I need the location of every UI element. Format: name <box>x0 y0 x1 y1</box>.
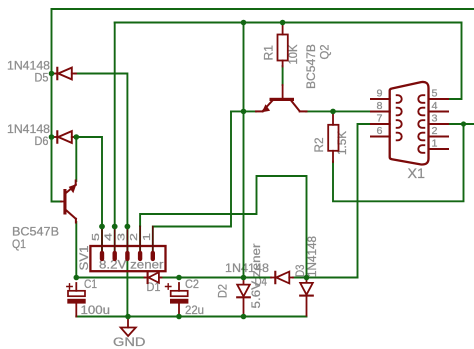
diode D3 <box>300 278 313 316</box>
wire SV1 pin4 net vertical <box>114 23 116 227</box>
X1 female contacts left <box>397 95 402 140</box>
svg-text:D6: D6 <box>35 136 49 148</box>
wire SV1 pin2 net to D3 junction <box>140 176 306 278</box>
connector X1 body <box>390 82 429 165</box>
resistor R1 <box>278 23 288 67</box>
wire D5 to SV1 pin3 <box>75 74 127 251</box>
wire SV1 pin2 lead upper <box>139 226 141 250</box>
connector SV1 box <box>90 246 165 271</box>
wire +rail D1 to D4 <box>161 277 271 279</box>
wire X1 pin8 row / Q2 collector <box>306 110 371 112</box>
wire D6 to SV1 pin5 <box>75 137 102 250</box>
svg-text:22u: 22u <box>185 305 204 317</box>
svg-text:GND: GND <box>113 335 146 349</box>
wire R2 bottom to X1 pin3 <box>333 124 464 201</box>
svg-text:3: 3 <box>432 113 438 125</box>
svg-text:4: 4 <box>103 233 115 241</box>
capacitor C2 <box>166 283 189 317</box>
X1 pin stubs right <box>429 99 449 149</box>
X1 female contacts right <box>418 95 424 153</box>
svg-text:Q2: Q2 <box>320 45 332 60</box>
wire top rail <box>52 8 474 10</box>
wire Q2 emitter net vertical <box>243 23 245 278</box>
svg-text:BC547B: BC547B <box>306 44 318 89</box>
svg-text:2: 2 <box>128 233 140 241</box>
svg-text:8: 8 <box>377 100 383 112</box>
wire +rail C1 to D1 <box>76 277 144 279</box>
svg-text:8.2V zener: 8.2V zener <box>99 260 164 272</box>
zener diode D1 <box>145 272 162 283</box>
diode D6 <box>52 131 77 143</box>
SV1 pin leads <box>102 227 153 251</box>
diode D4 <box>271 272 293 284</box>
zener diode D2 <box>237 278 250 316</box>
wire SV1 pins 5,4,3 leads top <box>102 227 127 251</box>
transistor Q1 <box>61 181 77 223</box>
capacitor C1 <box>67 283 86 317</box>
svg-text:R1: R1 <box>264 45 276 61</box>
svg-text:D2: D2 <box>218 284 230 298</box>
wire X1 pin3 row <box>448 123 474 125</box>
wire second rail y22 <box>115 22 462 24</box>
wire X1 pin7 branch <box>358 124 372 278</box>
wire left rail down to Q1 base <box>52 9 62 202</box>
X1 pin stubs left <box>371 99 390 137</box>
svg-text:2: 2 <box>432 125 438 137</box>
svg-text:1N4148: 1N4148 <box>225 263 269 275</box>
svg-text:1N4148: 1N4148 <box>7 61 50 73</box>
svg-text:100u: 100u <box>81 305 111 317</box>
svg-text:5: 5 <box>432 88 438 100</box>
svg-text:R2: R2 <box>314 138 326 153</box>
svg-text:1: 1 <box>141 233 153 241</box>
svg-text:1N4148: 1N4148 <box>307 236 319 277</box>
wire D6 junction to Q1 emitter <box>75 137 77 181</box>
resistor R2 <box>328 111 338 162</box>
wire Q2 emitter row <box>231 110 256 112</box>
svg-text:4: 4 <box>432 100 438 112</box>
wire bottom GND rail <box>76 316 306 318</box>
svg-text:1: 1 <box>432 138 438 150</box>
svg-text:1N4148: 1N4148 <box>7 124 50 136</box>
wire SV1 pin3 pad through to GND rail <box>126 259 128 317</box>
diode D5 <box>52 68 77 80</box>
SV1 pads <box>100 251 155 261</box>
svg-text:SV1: SV1 <box>79 246 91 271</box>
wire +rail D4 to pin7 branch <box>293 277 358 279</box>
svg-text:C1: C1 <box>84 279 97 291</box>
svg-text:Q1: Q1 <box>12 237 26 251</box>
svg-text:D5: D5 <box>35 73 49 85</box>
transistor Q2 <box>256 85 307 112</box>
svg-text:9: 9 <box>377 88 383 100</box>
ground symbol <box>121 318 136 336</box>
svg-text:3: 3 <box>115 233 127 241</box>
wire Q1 collector to +rail <box>75 222 77 278</box>
wire R1 bottom gap <box>282 66 284 85</box>
wire SV1 pin1 net <box>153 111 231 250</box>
svg-text:7: 7 <box>377 113 383 125</box>
svg-text:C2: C2 <box>185 279 199 291</box>
svg-text:6: 6 <box>377 125 383 137</box>
svg-text:5: 5 <box>90 233 102 241</box>
svg-text:10K: 10K <box>288 44 300 64</box>
wire X1 pin5 net <box>448 23 462 100</box>
svg-text:X1: X1 <box>408 165 426 181</box>
